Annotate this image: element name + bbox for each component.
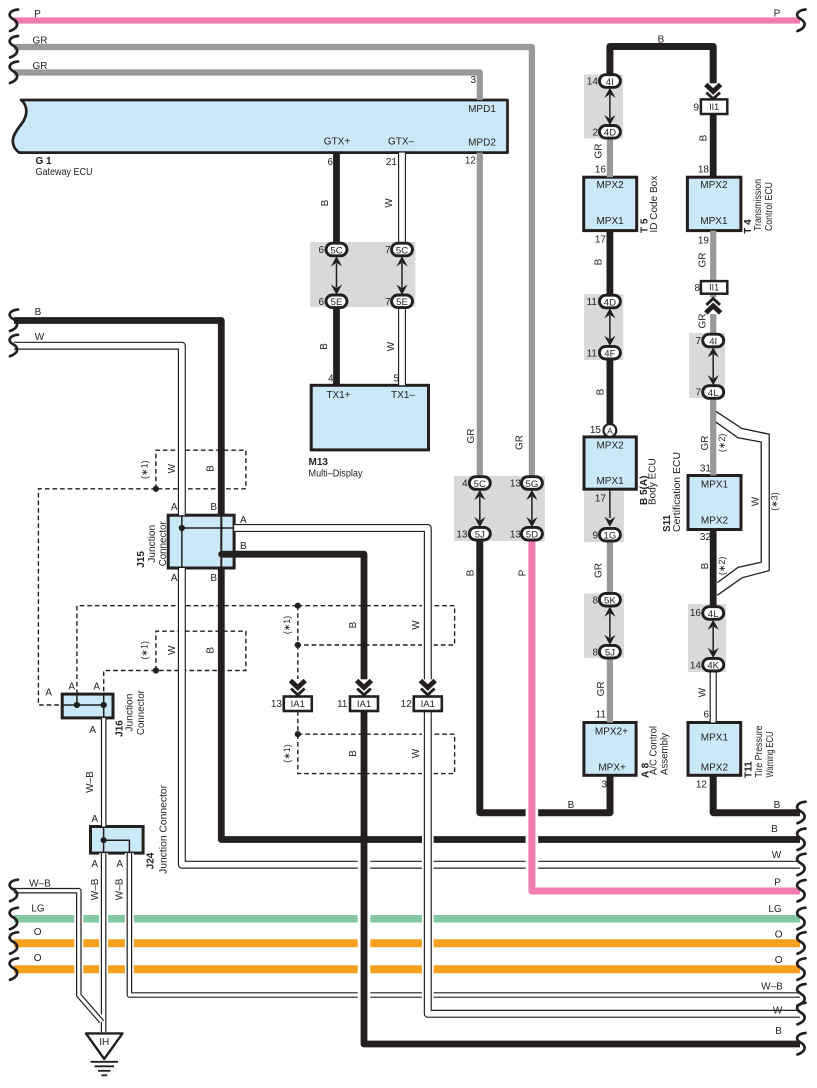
svg-text:ID Code Box: ID Code Box: [649, 176, 660, 233]
label pin7 5E: [385, 297, 391, 308]
svg-text:A: A: [91, 859, 98, 870]
label pin17 B5: [595, 494, 607, 505]
label B J15 bottom: [210, 573, 217, 584]
svg-text:B: B: [700, 562, 711, 569]
wire W from left break through J15 upper: [14, 346, 182, 516]
label GR wire pin12: [466, 429, 477, 444]
wire B G1 GTX+ to M13 pin4: [333, 153, 340, 386]
svg-text:MPX2: MPX2: [700, 180, 728, 191]
svg-text:GTX+: GTX+: [324, 137, 351, 148]
label B loop T11 right: [774, 800, 781, 811]
label P left: [34, 9, 41, 20]
label pin2 4D: [592, 127, 598, 138]
svg-text:II1: II1: [709, 283, 719, 293]
svg-text:(∗1): (∗1): [139, 460, 149, 479]
oval connector 5E pin6: [326, 295, 347, 308]
svg-text:MPX1: MPX1: [596, 216, 624, 227]
label S11 name: [662, 452, 683, 532]
svg-text:15: 15: [590, 425, 602, 436]
svg-text:GR: GR: [594, 144, 605, 159]
dashed box (*1) lower IA1: [298, 734, 455, 773]
svg-text:GR: GR: [596, 681, 607, 696]
svg-text:A: A: [89, 725, 96, 736]
label pin7 4I: [695, 336, 701, 347]
svg-text:Junction Connector: Junction Connector: [158, 784, 169, 874]
svg-text:17: 17: [595, 494, 607, 505]
tire pressure warning ECU T11 box: [688, 723, 741, 776]
label B5 name: [639, 458, 658, 505]
svg-text:Warning ECU: Warning ECU: [765, 732, 776, 778]
label P right: [774, 9, 781, 20]
label GR II1-4I: [698, 314, 709, 329]
label T5 name: [639, 176, 660, 233]
break symbol O1 left: [10, 932, 18, 954]
label B left break: [35, 307, 42, 318]
label pin15 A: [590, 425, 602, 436]
svg-text:B: B: [699, 134, 710, 141]
svg-text:GR: GR: [33, 36, 48, 47]
svg-text:Connector: Connector: [158, 521, 169, 567]
label MPX1 B5: [596, 476, 624, 487]
label P rail right: [774, 877, 781, 888]
svg-text:A: A: [171, 502, 178, 513]
oval connector 4F pin11: [599, 346, 620, 359]
svg-text:17: 17: [595, 234, 607, 245]
label B 4F-A: [596, 388, 607, 395]
label MPD1: [468, 104, 496, 115]
wire B 4F to A circle: [607, 358, 614, 424]
break symbol O2 right: [797, 958, 805, 980]
svg-text:GR: GR: [33, 61, 48, 72]
svg-text:A: A: [240, 515, 247, 526]
dashed rail J16 to IA1 box: [77, 606, 298, 694]
label GR T4-II1: [698, 253, 709, 268]
label pin8 5J: [592, 647, 598, 658]
break symbol P rail right: [797, 880, 805, 902]
body ECU B5(A) box: [584, 437, 636, 489]
label B rail right: [771, 824, 778, 835]
J16 junction dot right: [101, 702, 107, 708]
label (*1) box3: [282, 616, 292, 635]
svg-text:B: B: [594, 258, 605, 265]
connector IA1 pin11: [350, 697, 378, 712]
svg-text:T11: T11: [743, 761, 754, 778]
certification ECU S11 box: [688, 476, 741, 530]
wire GR 4D to T5: [607, 138, 613, 177]
label TX1+: [326, 390, 350, 401]
svg-text:Tire Pressure: Tire Pressure: [754, 725, 765, 777]
svg-text:B: B: [206, 465, 217, 472]
label LG right: [768, 904, 782, 915]
svg-text:13: 13: [510, 479, 522, 490]
label W 4K-T11: [697, 687, 708, 697]
svg-text:W–B: W–B: [115, 878, 126, 900]
label A J24 bottom1: [91, 859, 98, 870]
wire W G1 GTX- to M13 pin5: [398, 153, 406, 386]
dashed box (*1) above J16: [156, 631, 246, 670]
svg-text:4K: 4K: [707, 661, 719, 672]
arrow pair 5C6-5E6: [331, 256, 342, 295]
wire pin17 B5 to 1G with arrow: [604, 489, 615, 527]
svg-text:B: B: [466, 569, 477, 576]
svg-text:W: W: [411, 620, 422, 630]
label W wire GTX lower: [386, 341, 397, 351]
svg-text:B: B: [348, 750, 359, 757]
wire W J15 branch to IA1-12 and bottom rail: [234, 528, 800, 1014]
break symbol W left: [10, 335, 18, 357]
svg-text:LG: LG: [31, 903, 45, 914]
chevron into II1-9: [704, 83, 722, 100]
label pin11 4F: [587, 348, 598, 359]
label W2 rail right: [773, 1006, 783, 1017]
label (*2) bottom: [717, 557, 727, 576]
wire B loop 5J to A8 pin3: [480, 540, 610, 813]
label J24 name: [146, 784, 170, 874]
svg-text:II1: II1: [709, 102, 719, 112]
ground hatching: [91, 1062, 119, 1076]
label A J16 top1: [68, 682, 75, 693]
break symbol LG left: [10, 908, 18, 930]
chevron into II1-8: [704, 297, 722, 314]
svg-text:3: 3: [470, 75, 476, 86]
arrow pair 8-5K/8-5J: [604, 607, 615, 646]
svg-text:Assembly: Assembly: [660, 733, 671, 775]
J15 internal W line: [182, 515, 234, 568]
svg-text:W: W: [167, 463, 178, 473]
gateway ECU G1 box: [13, 100, 508, 153]
label pin7 5C: [385, 245, 391, 256]
label B II1-T4: [699, 134, 710, 141]
connector block background 6-5C/6-5E: [310, 242, 415, 307]
svg-text:4I: 4I: [606, 77, 614, 88]
dot on dashed box3 bottom: [295, 642, 301, 648]
label W-B left break: [29, 879, 51, 890]
junction connector J16 box: [62, 694, 113, 718]
junction connector J15 box: [168, 515, 234, 568]
label MPX1 T4: [700, 216, 728, 227]
A/C control assembly A8 box: [584, 723, 636, 776]
svg-text:4L: 4L: [708, 388, 719, 399]
svg-text:B: B: [775, 1026, 782, 1037]
arrow pair 11-4D/11-4F: [604, 308, 615, 346]
oval connector 5J pin13: [469, 527, 490, 540]
break symbol W rail right: [797, 854, 805, 876]
break symbol O1 right: [797, 932, 805, 954]
label B wire GTX lower: [319, 343, 330, 350]
ID code box T5 box: [584, 177, 637, 230]
svg-text:31: 31: [700, 464, 712, 475]
arrow pair 7-4I/7-4L: [708, 347, 719, 385]
dashed box (*1) upper IA1: [298, 606, 455, 645]
svg-text:7: 7: [695, 336, 701, 347]
oval connector 1G pin9: [599, 528, 620, 541]
label GTX-: [388, 137, 415, 148]
svg-text:13: 13: [456, 529, 468, 540]
wire LG horizontal: [14, 915, 800, 923]
label MPX1 S11: [701, 479, 729, 490]
break symbol B left: [10, 310, 18, 332]
label J16 name: [115, 689, 147, 736]
svg-text:32: 32: [700, 532, 712, 543]
label MPX2 S11: [701, 516, 729, 527]
dot on dashed box3 top: [295, 603, 301, 609]
svg-text:MPX1: MPX1: [596, 476, 624, 487]
label W rail right: [772, 850, 782, 861]
transmission control ECU T4 box: [687, 177, 741, 230]
oval connector 5D pin13: [521, 527, 542, 540]
shield line (*2) inner W: [716, 422, 761, 582]
multi-display M13 box: [311, 385, 428, 450]
label P wire below 5D: [517, 569, 528, 576]
svg-text:B: B: [210, 502, 217, 513]
label A8 name: [641, 726, 671, 778]
svg-text:MPX2: MPX2: [596, 180, 624, 191]
label (*1) box4: [282, 744, 292, 763]
svg-text:Certification ECU: Certification ECU: [672, 452, 683, 532]
svg-text:MPD2: MPD2: [468, 138, 496, 149]
label pin12 T11: [696, 780, 708, 791]
oval connector 5G pin13: [521, 477, 542, 490]
svg-text:J24: J24: [146, 852, 157, 869]
label W box4: [411, 748, 422, 758]
svg-text:11: 11: [337, 699, 348, 710]
svg-text:4F: 4F: [604, 349, 615, 360]
svg-text:9: 9: [693, 102, 699, 113]
svg-text:A: A: [116, 859, 123, 870]
svg-text:B: B: [206, 647, 217, 654]
svg-text:A: A: [91, 814, 98, 825]
svg-text:MPX2: MPX2: [596, 441, 624, 452]
break symbol P left: [10, 10, 18, 32]
svg-text:GR: GR: [594, 563, 605, 578]
svg-text:MPX2: MPX2: [701, 516, 729, 527]
dashed drop to IA1 13: [297, 645, 299, 679]
wire B S11 to 4L-16: [710, 530, 717, 608]
J15 internal B line: [221, 515, 234, 568]
label GR1 left: [33, 36, 48, 47]
svg-text:14: 14: [690, 660, 702, 671]
svg-text:B: B: [210, 573, 217, 584]
svg-text:19: 19: [698, 236, 710, 247]
wire GR T4 to II1-8: [710, 231, 716, 282]
label pin32 S11: [700, 532, 712, 543]
label W box3: [411, 620, 422, 630]
label pin11 4D: [587, 297, 598, 308]
svg-text:Control ECU: Control ECU: [764, 182, 775, 231]
oval connector 5C pin7: [392, 243, 413, 256]
label 12 IA1: [401, 699, 413, 710]
J15 junction dot W: [179, 525, 185, 531]
label MPX2 T11: [701, 762, 729, 773]
label pin31 S11: [700, 464, 712, 475]
wire B J15 lower to full-width bottom rail: [221, 568, 800, 840]
label O1 left: [34, 927, 42, 938]
label B box2: [206, 647, 217, 654]
svg-text:W: W: [773, 1006, 783, 1017]
label B loop A8: [568, 800, 575, 811]
svg-text:12: 12: [465, 156, 477, 167]
svg-text:W–B: W–B: [90, 878, 101, 900]
label MPX2 B5: [596, 441, 624, 452]
circle connector A pin15: [604, 424, 617, 437]
svg-text:B: B: [774, 800, 781, 811]
svg-text:TX1+: TX1+: [326, 390, 350, 401]
label (*3): [770, 492, 780, 511]
svg-text:GR: GR: [698, 253, 709, 268]
break symbol B rail right: [797, 829, 805, 851]
svg-text:A/C Control: A/C Control: [649, 726, 660, 775]
connector block background 7-4I/7-4L: [689, 333, 725, 398]
svg-text:11: 11: [587, 297, 598, 308]
label W-B J24 right: [115, 878, 126, 900]
wire B II1-9 to T4: [710, 114, 717, 177]
label B top rail: [658, 35, 665, 46]
label pin14 4I: [587, 77, 599, 88]
break symbol W-B left: [10, 880, 18, 902]
svg-text:8: 8: [694, 283, 700, 294]
label MPX+ A8: [598, 762, 626, 773]
label pin13 5D: [510, 529, 522, 540]
svg-text:5C: 5C: [396, 245, 408, 256]
label O2 left: [34, 953, 42, 964]
svg-text:Junction: Junction: [124, 694, 135, 732]
svg-text:B: B: [596, 388, 607, 395]
svg-text:GR: GR: [698, 314, 709, 329]
label pin16 4L: [690, 608, 702, 619]
wire GR G1 pin12 to 5C: [477, 153, 483, 478]
svg-text:9: 9: [592, 530, 598, 541]
svg-text:MPX2: MPX2: [701, 762, 729, 773]
J24 junction dot: [101, 837, 107, 843]
oval connector 5J pin8: [599, 645, 620, 658]
label T4 name: [743, 179, 775, 234]
svg-text:(∗2): (∗2): [717, 557, 727, 576]
svg-text:W: W: [751, 496, 762, 506]
svg-text:W: W: [411, 748, 422, 758]
wire GR 4L-7 to S11: [710, 398, 716, 476]
svg-text:IA1: IA1: [291, 699, 305, 710]
svg-text:4D: 4D: [604, 128, 616, 139]
svg-text:13: 13: [510, 529, 522, 540]
svg-text:IA1: IA1: [357, 699, 371, 710]
label pin12 G1: [465, 156, 477, 167]
wire W-B J16 to J24: [101, 718, 107, 827]
svg-text:Gateway ECU: Gateway ECU: [36, 167, 93, 178]
svg-text:5G: 5G: [525, 479, 538, 490]
connector block background 17/9-1G: [584, 491, 624, 542]
label pin18 T4: [698, 165, 710, 176]
label A J15 right: [240, 515, 247, 526]
wire B loop T11 pin12 to right edge: [713, 775, 800, 812]
ground IH triangle: [86, 1033, 123, 1059]
label W shield: [751, 496, 762, 506]
svg-text:A: A: [68, 682, 75, 693]
label pin8 5K: [592, 595, 598, 606]
oval connector 4I pin7: [703, 334, 724, 347]
svg-text:P: P: [774, 877, 781, 888]
svg-text:(∗1): (∗1): [139, 641, 149, 660]
label B J15 top: [210, 502, 217, 513]
svg-text:6: 6: [318, 297, 324, 308]
svg-text:A: A: [607, 426, 613, 436]
dot on dashed box2: [153, 667, 159, 673]
label O2 right: [775, 955, 783, 966]
svg-text:IH: IH: [99, 1037, 109, 1048]
svg-text:3: 3: [601, 780, 607, 791]
label (*1) box1: [139, 460, 149, 479]
connector IA1 pin12: [414, 697, 442, 712]
svg-text:18: 18: [698, 165, 710, 176]
junction connector J24 box: [91, 827, 144, 854]
svg-text:4: 4: [328, 373, 334, 384]
label pin11 A8: [596, 709, 607, 720]
oval connector 4D pin2: [599, 126, 620, 139]
svg-text:13: 13: [271, 699, 283, 710]
label pin6 G1: [327, 157, 333, 168]
svg-text:Body ECU: Body ECU: [648, 458, 659, 505]
svg-text:B: B: [348, 621, 359, 628]
break symbol B loop right: [797, 802, 805, 824]
svg-text:B: B: [568, 800, 575, 811]
dot on dashed box4: [295, 731, 301, 737]
label pin3: [470, 75, 476, 86]
svg-text:5E: 5E: [396, 297, 408, 308]
label GTX+: [324, 137, 351, 148]
wire B J15 branch to IA1-11 and bottom rail: [234, 554, 800, 1044]
label B T5-4D: [594, 258, 605, 265]
svg-text:MPX1: MPX1: [700, 216, 728, 227]
wire P top rail: [14, 17, 800, 23]
svg-text:4L: 4L: [708, 609, 719, 620]
label B box3: [348, 621, 359, 628]
svg-text:P: P: [774, 9, 781, 20]
oval connector 4D pin11: [599, 295, 620, 308]
label W-B rail right: [761, 982, 783, 993]
svg-text:O: O: [775, 929, 783, 940]
connector block background 16-4L/14-4K: [688, 604, 726, 672]
svg-text:4D: 4D: [604, 297, 616, 308]
break symbol W-B right: [797, 984, 805, 1006]
dashed box (*1) above J15: [156, 450, 246, 489]
wire W J15 lower to bottom rail: [182, 568, 800, 865]
label GR 4L-S11: [700, 436, 711, 451]
wire O horizontal lower: [14, 965, 800, 973]
wire B from left break through J15 upper: [14, 321, 221, 516]
wire W 4K to T11: [710, 672, 717, 723]
dashed link box2 to J16 right pin: [104, 671, 156, 695]
label W wire GTX upper: [384, 198, 395, 208]
label pin9 1G: [592, 530, 598, 541]
label MPX1 T5: [596, 216, 624, 227]
oval connector 5C pin6: [326, 243, 347, 256]
connector IA1 pin13: [284, 697, 312, 712]
label B wire GTX upper: [320, 199, 331, 206]
label W left break: [35, 332, 45, 343]
break symbol GR1 left: [10, 36, 18, 58]
label pin8 II1: [694, 283, 700, 294]
svg-text:(∗2): (∗2): [717, 434, 727, 453]
label pin14 4K: [690, 660, 702, 671]
arrow pair 5C7-5E7: [396, 256, 407, 295]
svg-text:W: W: [167, 645, 178, 655]
svg-text:5J: 5J: [475, 530, 485, 541]
label pin6 5E: [318, 297, 324, 308]
svg-text:Junction: Junction: [147, 525, 158, 563]
svg-text:4: 4: [462, 479, 468, 490]
svg-text:MPD1: MPD1: [468, 104, 496, 115]
svg-text:B: B: [320, 199, 331, 206]
label pin16 T5: [595, 165, 607, 176]
